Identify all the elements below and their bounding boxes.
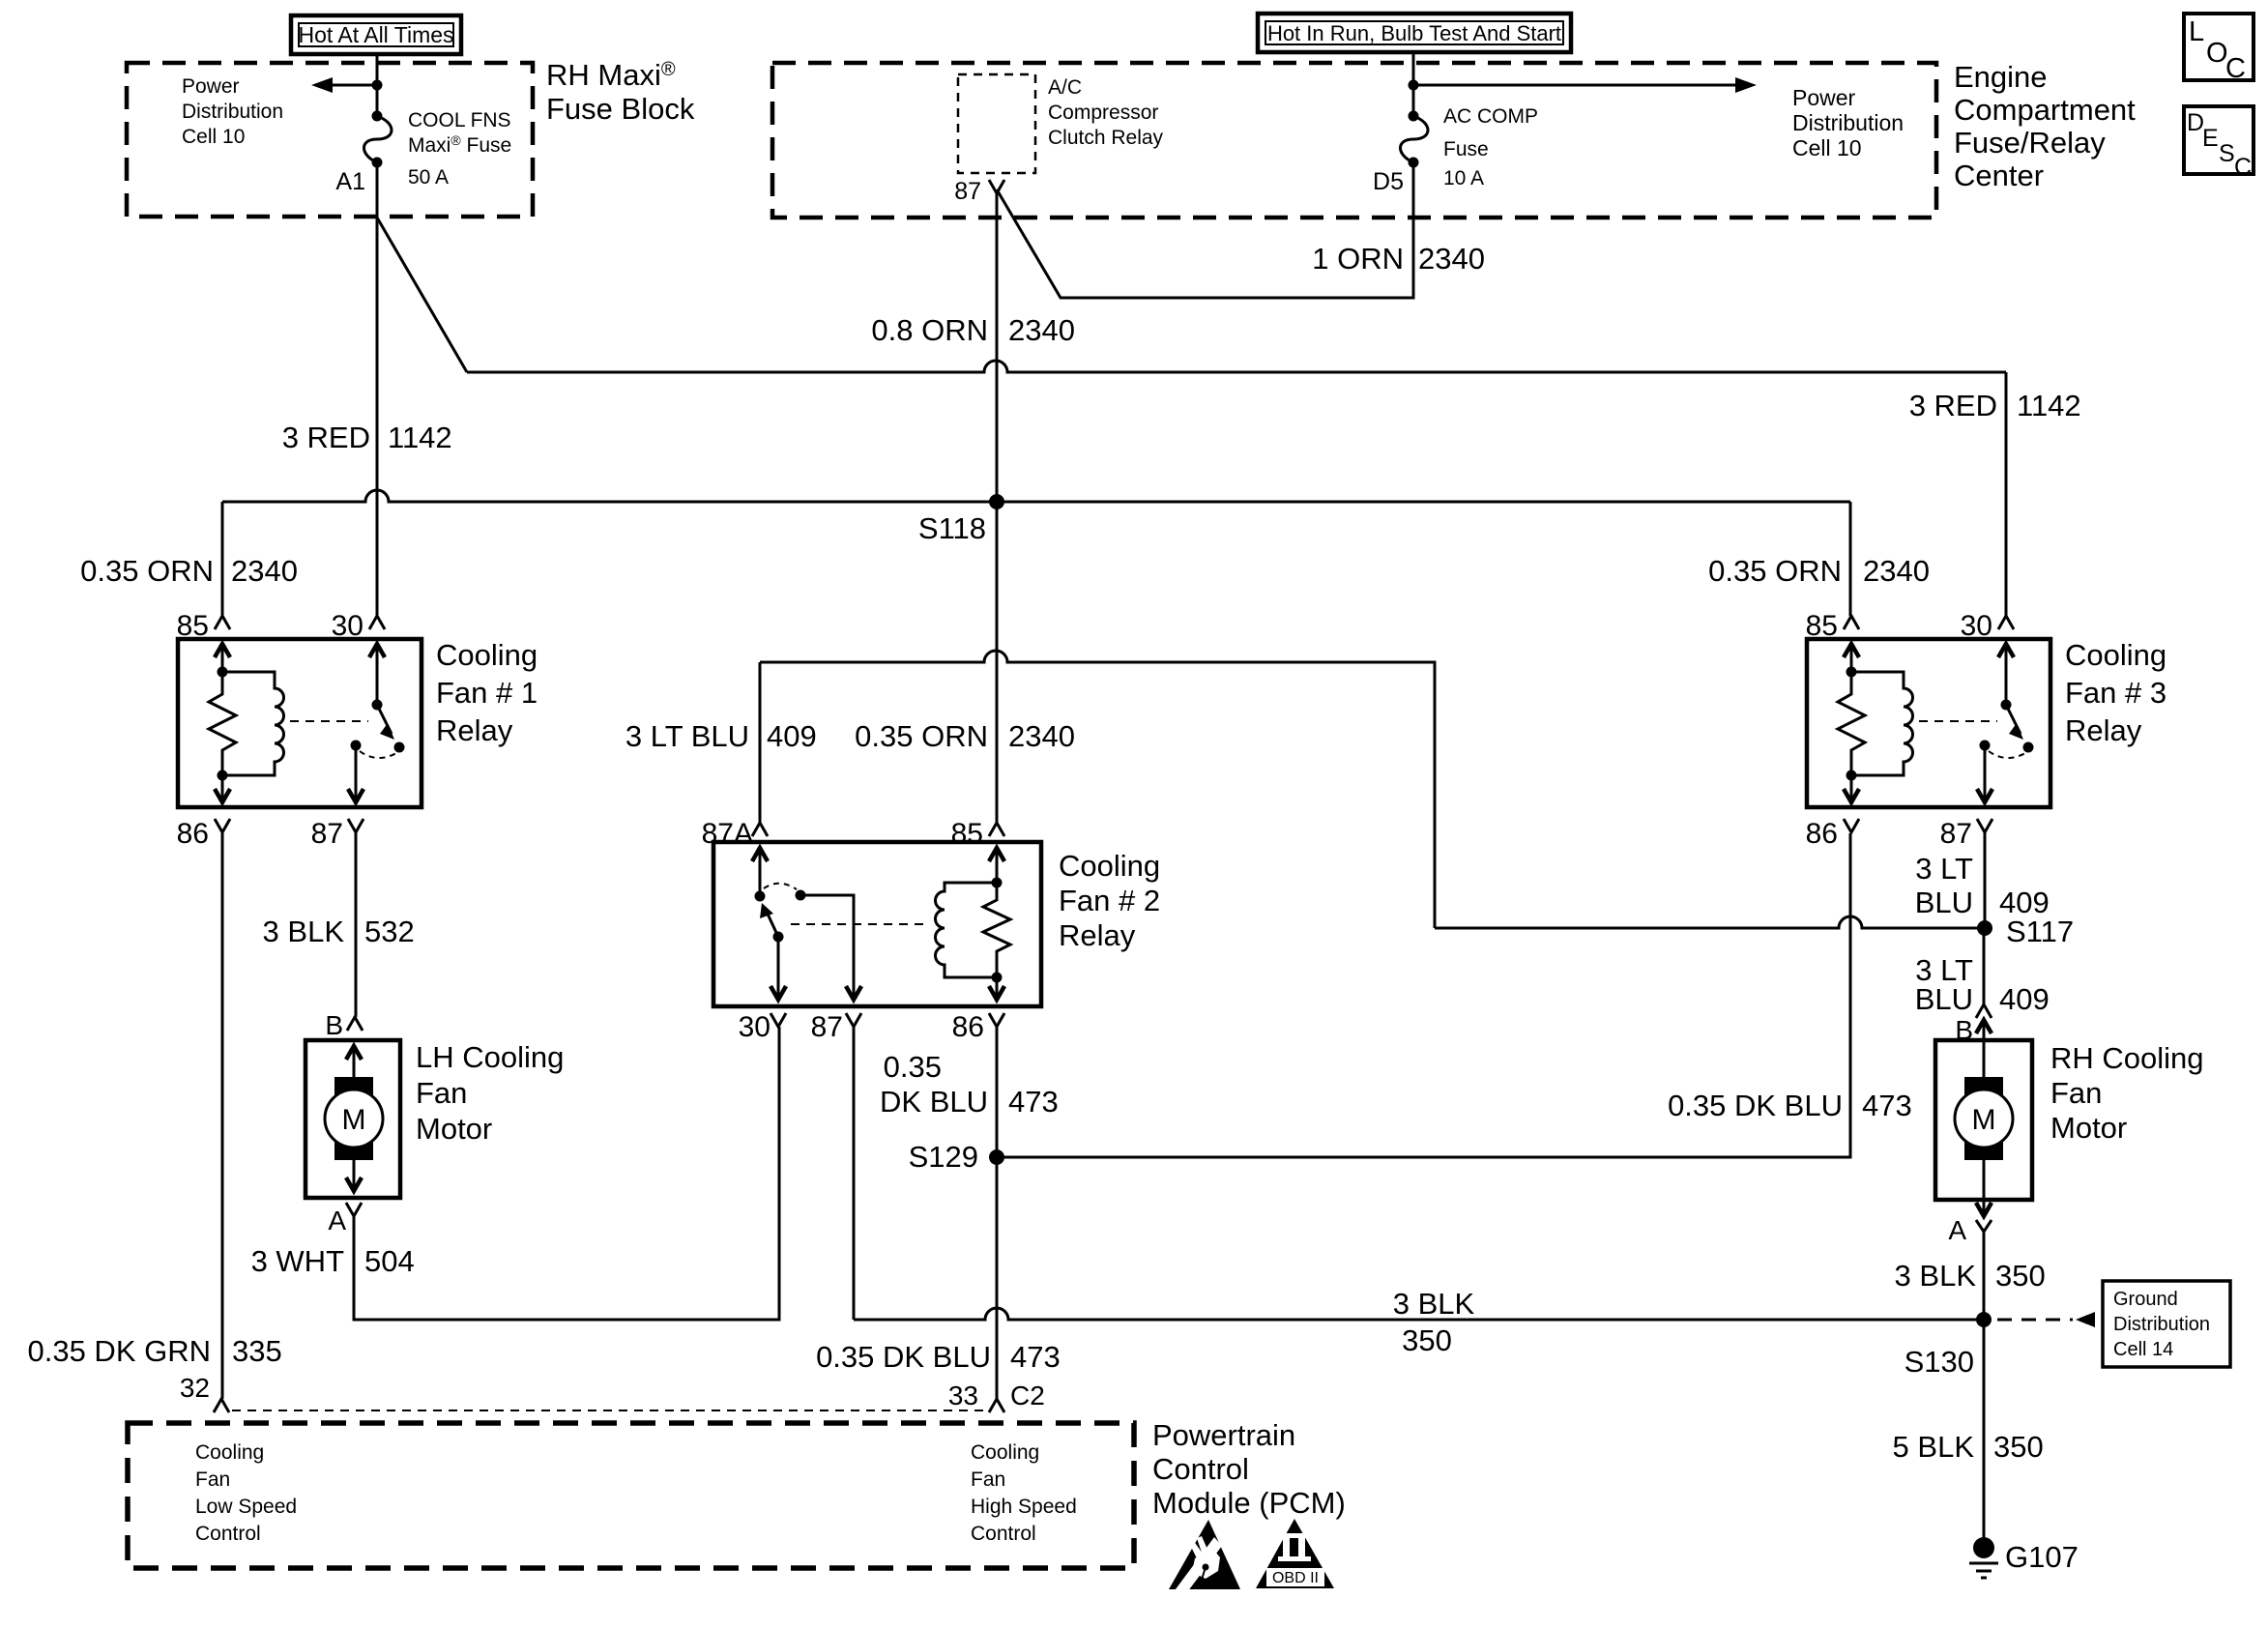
svg-text:Fuse/Relay: Fuse/Relay (1954, 126, 2106, 160)
terminal pin 85 relay 2 (989, 823, 1004, 836)
svg-text:33: 33 (948, 1381, 978, 1410)
splice S130 (1976, 1312, 1992, 1327)
svg-text:2340: 2340 (1008, 313, 1075, 347)
dashed reference wire to Ground Distribution (1997, 1319, 2073, 1322)
svg-text:Cooling: Cooling (436, 638, 538, 672)
svg-text:Control: Control (195, 1523, 261, 1545)
label 3 LT BLU 409 (below S117) (1915, 953, 2050, 1016)
wire from Hot In Run label box down to fuse feed (1412, 52, 1415, 116)
text Power Distribution Cell 10 (right) (1792, 85, 1904, 160)
svg-text:1 ORN: 1 ORN (1312, 242, 1404, 276)
label 3 BLK 350 (right) (1895, 1259, 2046, 1293)
svg-text:D5: D5 (1373, 168, 1404, 195)
terminal pin 87A relay 2 (752, 823, 768, 836)
relay 2 pin 30 arrow down (777, 937, 780, 996)
svg-text:S117: S117 (2006, 915, 2074, 948)
svg-text:Fuse Block: Fuse Block (546, 92, 695, 126)
svg-text:473: 473 (1008, 1085, 1059, 1119)
svg-text:Hot In Run, Bulb Test And Star: Hot In Run, Bulb Test And Start (1267, 21, 1561, 45)
wire LH motor A to relay 2 pin 30 (3 WHT 504) (354, 1027, 779, 1320)
text RH Cooling Fan Motor name (2050, 1041, 2204, 1145)
terminal pin 30 relay 1 (369, 616, 385, 629)
svg-text:M: M (1972, 1104, 1996, 1136)
ESD sensitivity symbol (1169, 1520, 1240, 1600)
svg-text:30: 30 (739, 1011, 771, 1043)
svg-text:350: 350 (1993, 1430, 2044, 1464)
splice S129 (989, 1149, 1004, 1165)
svg-text:86: 86 (177, 818, 209, 850)
relay 2 switch 87A arrow up (752, 848, 768, 861)
svg-text:Center: Center (1954, 159, 2044, 192)
svg-text:RH Cooling: RH Cooling (2050, 1041, 2204, 1075)
svg-text:A: A (1948, 1215, 1966, 1245)
terminal pin 86 relay 1 (215, 819, 230, 832)
relay 1 switch common from pin 30 (369, 644, 385, 657)
svg-text:A: A (328, 1206, 346, 1236)
power label box: Hot At All Times (291, 15, 461, 54)
svg-text:Control: Control (971, 1523, 1036, 1545)
svg-text:OBD II: OBD II (1272, 1570, 1319, 1586)
svg-text:87: 87 (1940, 818, 1972, 850)
svg-text:0.35 ORN: 0.35 ORN (1708, 554, 1842, 588)
svg-text:Compressor: Compressor (1048, 102, 1158, 124)
svg-text:A1: A1 (335, 168, 365, 195)
svg-text:Fan # 2: Fan # 2 (1059, 884, 1160, 917)
svg-text:5 BLK: 5 BLK (1893, 1430, 1975, 1464)
svg-text:473: 473 (1862, 1089, 1912, 1122)
label 0.35 DK BLU 473 (right) (1668, 1089, 1912, 1122)
relay 1 switch arm (377, 705, 392, 734)
label 3 RED 1142 (right) (1909, 389, 2081, 422)
resistor inside relay 1 (209, 672, 236, 775)
wire relay 2 pin 86 down through S129 to PCM pin 33 (996, 1027, 999, 1399)
svg-text:Cell 14: Cell 14 (2113, 1339, 2173, 1360)
svg-text:Cooling: Cooling (971, 1441, 1039, 1464)
terminal pin 85 relay 3 (1844, 616, 1859, 629)
svg-text:409: 409 (1999, 886, 2050, 919)
terminal A LH motor (346, 1203, 362, 1216)
RH Maxi Fuse Block dashed box (127, 63, 533, 217)
svg-text:3 WHT: 3 WHT (251, 1244, 345, 1278)
motor M LH Cooling Fan Motor box (305, 1040, 400, 1198)
svg-text:Cell 10: Cell 10 (182, 126, 245, 148)
relay 3 contact to pin 87 (1980, 741, 1991, 751)
LH Cooling Fan Motor top arrow (346, 1046, 362, 1060)
label 0.35 DK BLU 473 (relay 2) (880, 1050, 1059, 1119)
relay 2 coil bottom junction (992, 973, 1003, 983)
svg-text:0.35 DK BLU: 0.35 DK BLU (816, 1340, 991, 1374)
svg-text:S118: S118 (918, 511, 986, 545)
internal PCM dashed wire pin 32 to pin 33 (232, 1410, 986, 1411)
svg-text:10 A: 10 A (1443, 167, 1484, 189)
svg-text:DK BLU: DK BLU (880, 1085, 988, 1119)
wire S129 across to relay 3 pin 86 (997, 833, 1850, 1157)
motor M RH Cooling Fan Motor box (1935, 1040, 2032, 1200)
RH Cooling Fan Motor armature symbol (1964, 1077, 2003, 1160)
wire diagonal from pin 87 to AC COMP fuse (997, 162, 1413, 298)
label 3 LT BLU 409 (above S117) (1915, 852, 2050, 919)
svg-text:Fan: Fan (2050, 1076, 2102, 1110)
power label box: Hot In Run Bulb Test And Start (1258, 14, 1571, 52)
DESC reference box (2184, 106, 2253, 181)
label 3 WHT 504 (251, 1244, 415, 1278)
svg-text:Fan: Fan (971, 1468, 1005, 1491)
relay 2 coil-side bottom arrow (996, 977, 999, 996)
svg-text:RH Maxi®: RH Maxi® (546, 58, 676, 92)
svg-text:Relay: Relay (1059, 918, 1136, 952)
relay 3 contact travel arc (dashed) (1989, 751, 2025, 758)
svg-text:C: C (2225, 53, 2246, 84)
svg-text:0.8 ORN: 0.8 ORN (871, 313, 988, 347)
svg-text:S: S (2219, 140, 2235, 167)
svg-text:1142: 1142 (388, 421, 452, 454)
svg-text:Fuse: Fuse (1443, 138, 1489, 160)
svg-text:Control: Control (1152, 1452, 1249, 1486)
svg-text:Clutch Relay: Clutch Relay (1048, 127, 1164, 149)
relay 1 mechanical link (dashed) (290, 720, 368, 722)
text Cooling Fan # 1 Relay name (436, 638, 538, 747)
svg-text:Distribution: Distribution (1792, 110, 1904, 135)
label 0.35 ORN 2340 (center) (855, 719, 1075, 753)
splice S118 (989, 494, 1004, 509)
RH Cooling Fan Motor bottom arrow (1983, 1160, 1986, 1216)
svg-text:COOL FNS: COOL FNS (408, 109, 511, 131)
Engine Compartment Fuse/Relay Center dashed box (772, 63, 1936, 218)
svg-text:Power: Power (182, 75, 240, 98)
relay 3 coil bottom junction (1846, 770, 1857, 781)
resistor inside relay 2 (983, 883, 1010, 977)
coil inside relay 1 (222, 672, 284, 775)
svg-text:Cooling: Cooling (1059, 849, 1160, 883)
svg-text:32: 32 (180, 1373, 210, 1403)
wire down to relay 3 pin 30 (2005, 372, 2008, 616)
svg-text:Engine: Engine (1954, 60, 2048, 94)
relay 1 normally-open contact (394, 742, 405, 753)
wire RH motor A down to S130 (3 BLK 350) (1983, 1232, 1986, 1320)
relay 1 coil top junction (218, 667, 228, 678)
svg-text:Cooling: Cooling (2065, 638, 2166, 672)
terminal pin 30 relay 3 (1998, 616, 2014, 629)
coil inside relay 3 (1851, 672, 1913, 775)
svg-text:409: 409 (767, 719, 817, 753)
relay K3 Cooling Fan # 3 Relay box (1807, 639, 2050, 807)
relay 2 switch arm (766, 910, 778, 937)
svg-text:Cooling: Cooling (195, 1441, 264, 1464)
label 3 BLK 350 (center, two lines) (1393, 1287, 1475, 1357)
relay 1 pin 87 arrow down (355, 745, 358, 802)
label 3 LT BLU 409 (625, 719, 817, 753)
svg-text:87: 87 (954, 178, 981, 205)
label 0.8 ORN 2340 (871, 313, 1075, 347)
svg-text:M: M (342, 1104, 366, 1136)
svg-text:0.35 DK GRN: 0.35 DK GRN (27, 1334, 211, 1368)
svg-text:C2: C2 (1010, 1381, 1045, 1410)
resistor inside relay 3 (1838, 672, 1865, 775)
LOC reference box (2184, 14, 2253, 84)
svg-text:30: 30 (1961, 610, 1992, 642)
svg-text:2340: 2340 (231, 554, 298, 588)
terminal pin 30 relay 2 (771, 1013, 786, 1027)
text Powertrain Control Module (PCM) name (1152, 1418, 1346, 1520)
svg-text:50 A: 50 A (408, 166, 449, 189)
svg-text:S130: S130 (1905, 1345, 1974, 1379)
svg-text:Compartment: Compartment (1954, 93, 2136, 127)
text RH Maxi Fuse Block name (546, 58, 695, 126)
relay 3 pin 87 arrow down (1984, 745, 1987, 802)
svg-text:S129: S129 (909, 1140, 978, 1174)
svg-text:B: B (325, 1010, 343, 1040)
svg-text:350: 350 (1402, 1323, 1452, 1357)
svg-text:0.35 ORN: 0.35 ORN (80, 554, 214, 588)
terminal pin 87 relay 1 (348, 819, 363, 832)
svg-text:Module (PCM): Module (PCM) (1152, 1486, 1346, 1520)
A/C Compressor Clutch Relay dashed box (958, 74, 1035, 173)
terminal pin 87 A/C relay (989, 180, 1004, 193)
svg-text:350: 350 (1995, 1259, 2046, 1293)
relay 1 contact travel arc (dashed) (360, 751, 396, 758)
svg-text:BLU: BLU (1915, 886, 1973, 919)
svg-text:E: E (2202, 125, 2219, 152)
svg-text:Relay: Relay (2065, 713, 2142, 747)
svg-text:Cell 10: Cell 10 (1792, 135, 1862, 160)
text Cooling Fan High Speed Control input (971, 1441, 1077, 1545)
svg-text:Fan: Fan (195, 1468, 230, 1491)
relay 1 contact to pin 87 (351, 741, 362, 751)
RH Cooling Fan Motor top arrow (1976, 1020, 1992, 1033)
wire diagonal branch from A1 (377, 218, 467, 372)
svg-text:BLU: BLU (1915, 982, 1973, 1016)
svg-text:3 RED: 3 RED (1909, 389, 1997, 422)
wire 87A up and across (3 LT BLU 409) with hop (760, 651, 1985, 928)
label 3 BLK 532 (263, 915, 415, 948)
wire relay 1 pin 87 down to LH motor B (3 BLK 532) (355, 832, 358, 1017)
terminal pin 86 wire join relay 3 (0, 0, 1, 1)
svg-text:335: 335 (232, 1334, 282, 1368)
wire S118 horizontal bus with hop over RED wire (222, 490, 1850, 502)
svg-text:3 RED: 3 RED (282, 421, 370, 454)
relay K1 Cooling Fan # 1 Relay box (178, 639, 422, 807)
text A/C Compressor Clutch Relay name (1048, 76, 1164, 149)
label 0.35 ORN 2340 (right) (1708, 554, 1930, 588)
svg-text:Hot At All Times: Hot At All Times (298, 22, 453, 47)
svg-text:87A: 87A (702, 818, 753, 850)
wire relay 1 pin 86 down to PCM pin 32 (0.35 DK GRN 335) (221, 832, 224, 1399)
svg-text:Distribution: Distribution (2113, 1314, 2210, 1335)
relay 3 coil top junction (1846, 667, 1857, 678)
svg-text:0.35 DK BLU: 0.35 DK BLU (1668, 1089, 1843, 1122)
svg-text:3 LT: 3 LT (1915, 852, 1973, 886)
svg-text:0.35 ORN: 0.35 ORN (855, 719, 988, 753)
svg-text:Fan # 1: Fan # 1 (436, 676, 538, 710)
relay 3 normally-open contact (2023, 742, 2034, 753)
terminal pin 87 relay 2 (846, 1013, 861, 1027)
fuse F1 COOL FNS Maxi Fuse 50 A (363, 111, 392, 168)
terminal pin 87 relay 3 (1977, 819, 1992, 832)
relay 1 coil-side top arrow (215, 644, 230, 657)
terminal pin 86 relay 2 (989, 1013, 1004, 1027)
svg-text:Ground: Ground (2113, 1289, 2178, 1310)
svg-text:532: 532 (364, 915, 415, 948)
svg-text:3 LT BLU: 3 LT BLU (625, 719, 749, 753)
LH Cooling Fan Motor bottom arrow (353, 1160, 356, 1191)
wire relay 3 pin 87 down to S117 (1984, 832, 1987, 928)
wire right end down to relay 3 pin 85 (1849, 502, 1852, 616)
svg-text:3 BLK: 3 BLK (1895, 1259, 1977, 1293)
relay 2 mechanical link (dashed) (791, 923, 930, 925)
wire S130 down to G107 (5 BLK 350) (1983, 1320, 1986, 1543)
label 0.35 ORN 2340 (left) (80, 554, 298, 588)
text COOL FNS Maxi Fuse 50 A value (408, 109, 511, 189)
svg-text:0.35: 0.35 (884, 1050, 942, 1084)
text Cooling Fan # 2 Relay name (1059, 849, 1160, 952)
connector terminal B RH motor (chevron above arrow) (1976, 1004, 1992, 1018)
label 3 RED 1142 (left) (282, 421, 452, 454)
text pin 33 C2 (948, 1381, 1045, 1410)
text AC COMP Fuse 10 A value (1443, 105, 1538, 189)
svg-text:85: 85 (177, 610, 209, 642)
svg-text:3 BLK: 3 BLK (1393, 1287, 1475, 1321)
text Cooling Fan # 3 Relay name (2065, 638, 2166, 747)
label 5 BLK 350 (1893, 1430, 2044, 1464)
svg-text:85: 85 (1806, 610, 1838, 642)
svg-text:1142: 1142 (2017, 389, 2081, 422)
text Engine Compartment Fuse/Relay Center name (1954, 60, 2136, 192)
svg-text:G107: G107 (2005, 1540, 2079, 1574)
LH Cooling Fan Motor armature symbol (334, 1077, 373, 1160)
terminal B LH motor (347, 1017, 363, 1031)
relay 1 coil-side bottom arrow (221, 775, 224, 802)
svg-text:87: 87 (811, 1011, 843, 1043)
relay 2 contact travel arc (dashed) (764, 884, 797, 889)
relay 3 switch arm (2006, 705, 2021, 734)
relay 3 coil-side bottom arrow (1850, 775, 1853, 802)
relay 1 coil bottom junction (218, 770, 228, 781)
svg-text:86: 86 (1806, 818, 1838, 850)
svg-text:Motor: Motor (416, 1112, 492, 1146)
coil inside relay 2 (936, 883, 997, 977)
Ground Distribution Cell 14 reference box (2103, 1281, 2230, 1367)
wire from Hot At All Times into fuse block (376, 54, 379, 116)
svg-text:LH Cooling: LH Cooling (416, 1040, 564, 1074)
ground G107 (1973, 1537, 1994, 1558)
arrow to Power Distribution Cell 10 (right) (1409, 77, 1758, 93)
svg-text:504: 504 (364, 1244, 415, 1278)
text LH Cooling Fan Motor name (416, 1040, 564, 1146)
terminal pin 85 relay 1 (215, 616, 230, 629)
relay 2 switch common pivot (773, 932, 784, 943)
relay 2 coil-side top arrow (989, 848, 1004, 861)
svg-text:Motor: Motor (2050, 1111, 2127, 1145)
svg-text:High Speed: High Speed (971, 1496, 1077, 1518)
svg-text:L: L (2189, 16, 2204, 47)
wire pin 87 down (0.8 ORN 2340) (996, 193, 999, 823)
text Power Distribution Cell 10 (left) (182, 75, 283, 148)
svg-text:C: C (2234, 154, 2252, 181)
svg-text:Powertrain: Powertrain (1152, 1418, 1295, 1452)
svg-text:2340: 2340 (1008, 719, 1075, 753)
svg-text:2340: 2340 (1418, 242, 1485, 276)
svg-text:409: 409 (1999, 982, 2050, 1016)
relay 3 switch common from pin 30 (1998, 644, 2014, 657)
Powertrain Control Module dashed box (128, 1423, 1134, 1568)
label 1 ORN 2340 (1312, 242, 1485, 276)
relay 3 coil-side top arrow (1844, 644, 1859, 657)
wire relay 2 pin 87 down and across to S130 (3 BLK 350) with hop over DK BLU (854, 1027, 1984, 1320)
svg-text:Low Speed: Low Speed (195, 1496, 297, 1518)
svg-text:2340: 2340 (1863, 554, 1930, 588)
label 0.35 DK GRN 335 (27, 1334, 281, 1368)
terminal pin 32 PCM (214, 1399, 229, 1412)
relay 3 mechanical link (dashed) (1919, 720, 1997, 722)
text Cooling Fan Low Speed Control input (195, 1441, 297, 1545)
arrow to Power Distribution Cell 10 (left) (311, 77, 383, 93)
svg-text:3 BLK: 3 BLK (263, 915, 345, 948)
connector terminal A RH motor (chevron below arrow) (1976, 1220, 1992, 1232)
terminal pin 33 PCM (989, 1399, 1004, 1412)
svg-text:Power: Power (1792, 85, 1856, 110)
svg-text:85: 85 (951, 818, 983, 850)
relay K2 Cooling Fan # 2 Relay box (713, 842, 1041, 1006)
terminal pin 86 relay 3 (1844, 819, 1859, 832)
wire left end down to relay 1 pin 85 (221, 502, 224, 616)
OBD II symbol (1256, 1519, 1334, 1588)
svg-text:Fan: Fan (416, 1076, 467, 1110)
label 0.35 DK BLU 473 (PCM pin 33) (816, 1340, 1061, 1374)
wire S117 down to RH motor B (1983, 928, 1986, 1004)
svg-text:87: 87 (311, 818, 343, 850)
relay 2 contact to pin 87 (796, 890, 806, 901)
svg-text:Relay: Relay (436, 713, 513, 747)
svg-text:30: 30 (332, 610, 363, 642)
splice S117 (1977, 920, 1992, 936)
svg-text:Distribution: Distribution (182, 101, 283, 123)
wire horizontal hot feed at y=385 with hop over ORN wire (467, 361, 2006, 372)
svg-text:Fan # 3: Fan # 3 (2065, 676, 2166, 710)
svg-text:AC COMP: AC COMP (1443, 105, 1538, 128)
wire A1 down to relay 1 pin 30 (3 RED 1142) (376, 162, 379, 616)
fuse F2 AC COMP Fuse 10 A (1400, 111, 1428, 168)
svg-text:473: 473 (1010, 1340, 1061, 1374)
svg-text:A/C: A/C (1048, 76, 1082, 99)
svg-text:86: 86 (952, 1011, 984, 1043)
